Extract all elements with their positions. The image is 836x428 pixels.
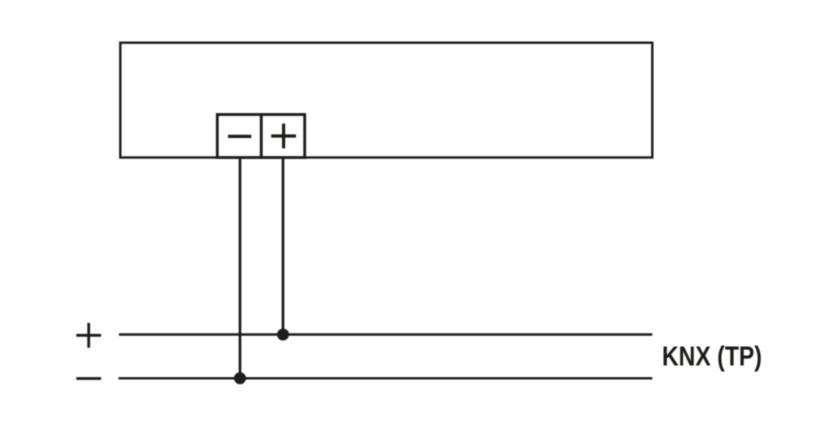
svg-text:KNX (TP): KNX (TP): [662, 339, 762, 371]
